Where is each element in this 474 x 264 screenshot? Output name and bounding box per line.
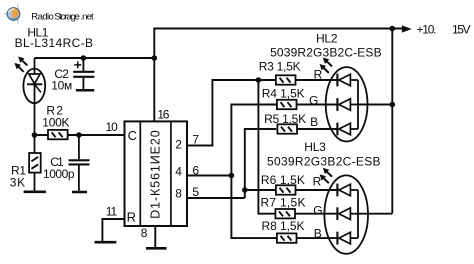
svg-text:C: C (128, 128, 137, 143)
logo globe icon (4, 4, 20, 25)
wire: R3 to HL2 red (296, 79, 337, 81)
ground at pin 11 (95, 241, 117, 244)
svg-text:R6 1,5K: R6 1,5K (261, 173, 305, 187)
svg-text:G: G (309, 93, 318, 107)
svg-text:2: 2 (175, 138, 182, 152)
wire: pin 11 to ground (102, 219, 124, 241)
svg-text:R4 1,5K: R4 1,5K (262, 86, 305, 100)
wire: R8 to HL3 blue (297, 237, 337, 239)
wire: HL2 common anode to +V (358, 104, 392, 106)
node: +V junction at HL2 (390, 102, 396, 108)
svg-text:B: B (314, 227, 322, 241)
resistor R1 (29, 135, 41, 191)
wire: R6 to HL3 red (296, 189, 337, 191)
svg-text:8: 8 (175, 187, 182, 201)
svg-text:D1-К561ИЕ20: D1-К561ИЕ20 (148, 130, 162, 219)
wire: bus R5 row down to pin5 (245, 129, 276, 198)
svg-text:R: R (314, 68, 323, 82)
svg-text:8: 8 (141, 226, 148, 240)
svg-text:10м: 10м (51, 79, 72, 93)
resistor R7 (275, 209, 295, 218)
capacitor C1 (69, 135, 90, 191)
svg-text:R3 1,5K: R3 1,5K (259, 60, 301, 74)
wire: top-left rail from HL1 to pin16 vertical (35, 57, 155, 59)
RGB LED HL3 (320, 168, 368, 253)
svg-text:R: R (313, 175, 322, 189)
svg-text:G: G (313, 203, 322, 217)
node: R3 row branch (256, 77, 262, 83)
node: R6 row branch (242, 187, 248, 193)
wire: +V vertical drop to HL2/HL3 (391, 29, 393, 214)
node: HL1/R1/R2 junction (32, 132, 38, 138)
wire: pin 5 to bus (187, 197, 245, 199)
resistor R5 (277, 124, 297, 133)
svg-text:11: 11 (106, 205, 118, 219)
wire: pin 8 to ground (154, 226, 156, 247)
wire: pin10 row (HL1/R1 to chip C input) (35, 134, 125, 136)
svg-text:R5 1,5K: R5 1,5K (264, 112, 306, 126)
ground under R1 (24, 191, 46, 194)
resistor R8 (277, 233, 297, 242)
resistor R4 (277, 100, 297, 109)
svg-text:15V: 15V (452, 23, 471, 37)
svg-text:16: 16 (157, 108, 169, 122)
svg-text:R: R (127, 210, 136, 225)
logo text RadioStorage.net (31, 11, 94, 22)
ground under C1 (72, 191, 87, 194)
wire: R7 to HL3 green (295, 213, 337, 215)
svg-text:Storage: Storage (54, 11, 80, 22)
node: C1 junction (76, 132, 82, 138)
svg-text:5039R2G3B2C-ESB: 5039R2G3B2C-ESB (270, 46, 382, 60)
wire: R5 to HL2 blue (297, 128, 337, 130)
arrow: +V rail arrowhead (402, 25, 412, 32)
wire: branch down to R7 row (258, 80, 276, 214)
wire: HL3 common anode to +V (358, 213, 392, 215)
svg-text:BL-L314RC-B: BL-L314RC-B (15, 36, 93, 50)
node: rail junction at pin16 line (152, 55, 158, 61)
resistor R3 (276, 75, 296, 84)
svg-text:B: B (310, 115, 318, 129)
svg-text:R7 1,5K: R7 1,5K (261, 196, 306, 210)
resistor R2 (48, 130, 68, 139)
svg-text:.net: .net (80, 11, 94, 22)
IC U1 D1-K561IE20 body (125, 121, 188, 226)
wire: R4 to HL2 green (297, 104, 337, 106)
svg-text:10: 10 (106, 120, 119, 134)
LED HL1 (15, 57, 45, 135)
svg-text:+10.: +10. (417, 23, 437, 37)
svg-text:7: 7 (192, 133, 199, 147)
RGB LED HL2 (320, 58, 367, 141)
wire: pin 7 up to R3 row (187, 80, 276, 146)
svg-text:5: 5 (192, 185, 199, 199)
ground at pin 8 (146, 247, 167, 250)
wire: pin 16 vertical and +V top rail (154, 29, 403, 122)
wire: bus R4 row to R8 row (231, 105, 276, 239)
wire: R6 row (245, 189, 276, 191)
capacitor C2 (73, 58, 94, 89)
svg-text:R8 1,5K: R8 1,5K (262, 219, 305, 233)
svg-text:100K: 100K (42, 116, 69, 130)
svg-text:3K: 3K (10, 175, 26, 189)
resistor R6 (276, 185, 296, 194)
node: rail junction at C2 (81, 55, 87, 61)
svg-text:4: 4 (175, 165, 182, 179)
ground under C2 (76, 89, 94, 92)
svg-text:HL2: HL2 (316, 31, 338, 45)
svg-text:HL3: HL3 (304, 140, 326, 154)
node: rail junction at +V drop (390, 26, 396, 32)
node: pin 6 bus junction (229, 173, 235, 179)
svg-text:5039R2G3B2C-ESB: 5039R2G3B2C-ESB (267, 154, 381, 168)
wire: pin 6 to bus (187, 175, 231, 177)
svg-text:1000p: 1000p (43, 167, 75, 181)
svg-text:Radio: Radio (31, 11, 54, 22)
